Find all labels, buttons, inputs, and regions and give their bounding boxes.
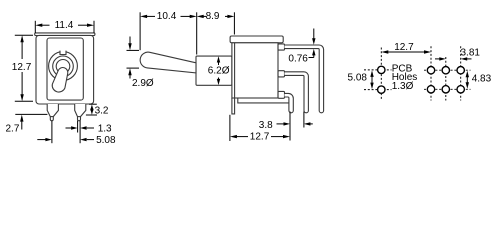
left mounting post with tapered pin tip	[47, 104, 58, 121]
mounting foot (side)	[232, 98, 235, 114]
dimension 3.81 (pcb col pitch)	[435, 58, 472, 60]
pin 3 (bottom, right-angle)	[285, 93, 294, 112]
top cap band (front)	[35, 33, 95, 36]
terminal hole row1 col1	[427, 67, 434, 74]
svg-text:5.08: 5.08	[348, 73, 368, 84]
right mounting post with tapered pin tip	[75, 104, 86, 121]
mounting hole top-left	[378, 66, 385, 73]
svg-text:12.7: 12.7	[250, 132, 270, 143]
dimension 6.2 dia (bushing)	[218, 61, 220, 81]
bushing outer circle	[49, 52, 78, 81]
terminal tab 1	[278, 44, 285, 50]
body (side)	[232, 43, 278, 98]
pin 1 (top, right-angle)	[285, 45, 324, 113]
face plate	[47, 38, 83, 100]
body top cap	[230, 36, 283, 43]
svg-text:1.3Ø: 1.3Ø	[392, 81, 414, 92]
dimension 2.9 dia (lever)	[127, 37, 140, 79]
svg-text:12.7: 12.7	[394, 42, 414, 53]
terminal hole row2 col2	[442, 86, 449, 93]
svg-text:0.76: 0.76	[288, 53, 308, 64]
dimension 5.08 (pcb mounting)	[371, 74, 373, 86]
dimension 12.7 (side, body to pin)	[230, 115, 284, 141]
terminal hole row1 col3	[457, 67, 464, 74]
dimension 11.4 (front width)	[35, 21, 94, 33]
dimension 5.08 (pin spacing)	[37, 121, 94, 144]
dimension 0.76 (pin thickness)	[309, 29, 314, 58]
svg-text:8.9: 8.9	[206, 11, 220, 22]
dimension 12.7 (pcb)	[388, 51, 425, 53]
left column vertical centerline	[380, 48, 382, 101]
dimension 3.2 (post height)	[86, 104, 97, 115]
right group horizontal centerlines	[424, 69, 471, 71]
svg-text:5.08: 5.08	[96, 135, 116, 146]
dimension 3.8 (pin pitch, side)	[277, 112, 313, 141]
PCB holes	[378, 66, 465, 93]
bushing (side)	[196, 56, 232, 85]
dimension 4.83 (pcb row pitch)	[466, 75, 468, 86]
svg-text:1.3: 1.3	[98, 124, 112, 135]
svg-text:2.7: 2.7	[6, 124, 20, 135]
terminal hole row1 col2	[442, 67, 449, 74]
keyway notch	[60, 51, 66, 55]
frame front seam	[234, 43, 236, 98]
left column horizontal centerlines	[364, 69, 392, 71]
dimension 2.7 (standoff)	[15, 114, 47, 129]
center lines	[364, 46, 471, 100]
svg-text:11.4: 11.4	[55, 20, 74, 31]
dimension 10.4 / 8.9 (lever, bushing)	[140, 12, 234, 54]
dimension 12.7 (front height)	[15, 35, 33, 101]
bushing middle circle	[53, 56, 74, 77]
frame bottom plate	[238, 98, 289, 103]
dimension 1.3 (pin width)	[66, 121, 95, 144]
right group vertical centerlines	[430, 46, 432, 100]
svg-text:3.2: 3.2	[95, 106, 109, 117]
toggle lever	[140, 52, 196, 73]
mounting hole bottom-left	[378, 86, 385, 93]
terminal tab 2	[278, 71, 285, 77]
pin 2 (middle, right-angle)	[285, 72, 309, 113]
svg-text:6.2Ø: 6.2Ø	[208, 66, 230, 77]
svg-text:10.4: 10.4	[157, 11, 177, 22]
svg-text:2.9Ø: 2.9Ø	[132, 78, 154, 89]
svg-text:3.8: 3.8	[259, 120, 273, 131]
svg-text:4.83: 4.83	[472, 73, 492, 84]
svg-text:12.7: 12.7	[12, 62, 32, 73]
terminal hole row2 col1	[427, 86, 434, 93]
switch body (front)	[36, 35, 94, 104]
toggle bat	[52, 68, 68, 93]
bushing inner circle	[56, 60, 70, 74]
svg-text:3.81: 3.81	[461, 48, 481, 59]
terminal tab 3	[278, 91, 285, 98]
terminal hole row2 col3	[457, 86, 464, 93]
